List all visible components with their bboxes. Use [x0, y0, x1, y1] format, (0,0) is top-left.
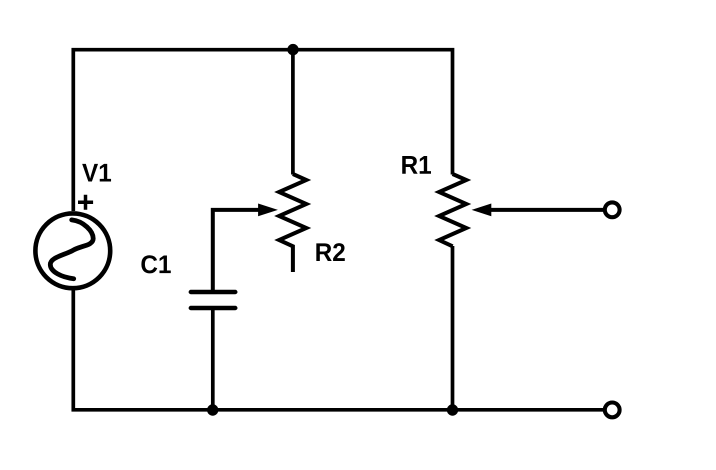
node: bottom junction dot at R1 [447, 404, 458, 415]
wire: R1 wiper shaft to top terminal [487, 208, 603, 212]
source V1 sine wave [50, 220, 93, 279]
wire: V1 top lead up left side and along top rail to junction [73, 50, 293, 211]
wire: R2 wiper shaft from C1 top plate [213, 210, 262, 292]
potentiometer R2 zigzag body with free bottom stub [279, 174, 306, 272]
arrowhead: R1 wiper (points left) [472, 204, 492, 217]
source V1 circle body [35, 213, 110, 288]
wire: R2 top lead [291, 50, 295, 175]
arrowhead: R2 wiper (points right) [258, 204, 278, 217]
label R1 [402, 156, 431, 174]
node: bottom junction dot at C1 [207, 404, 218, 415]
capacitor C1 bottom plate [191, 306, 236, 310]
wire: C1 bottom lead [211, 308, 215, 410]
capacitor C1 top plate [191, 290, 236, 294]
resistor R1 zigzag body [439, 174, 466, 246]
terminal: top open circle [605, 202, 620, 217]
label R2 [316, 243, 344, 261]
label C1 [141, 255, 170, 273]
wire: V1 bottom lead and bottom rail to terminal [73, 288, 603, 410]
polarity plus sign of V1 [78, 195, 93, 210]
wire: top rail from junction to R1 top corner [293, 50, 453, 175]
terminal: bottom open circle [605, 403, 620, 418]
node: top junction dot [287, 44, 298, 55]
label V1 [82, 164, 111, 182]
wire: R1 bottom lead [451, 246, 455, 410]
